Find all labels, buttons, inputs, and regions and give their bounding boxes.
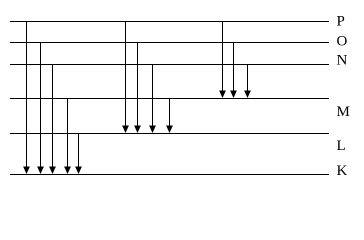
svg-text:M: M (337, 104, 350, 120)
arrow N to K (49, 65, 56, 175)
level line O (10, 42, 329, 44)
svg-text:O: O (337, 34, 348, 50)
level line K (10, 174, 329, 176)
arrow M to L (166, 99, 173, 134)
level line M (10, 98, 329, 100)
svg-text:P: P (337, 14, 345, 30)
level line L (10, 133, 329, 135)
svg-text:N: N (337, 53, 348, 69)
arrow O to K (37, 43, 44, 175)
arrow L to K (75, 134, 82, 175)
svg-text:K: K (337, 163, 348, 179)
arrow P to K (23, 22, 30, 175)
arrow N to M (244, 65, 251, 99)
arrow O to L (134, 43, 141, 134)
svg-text:L: L (337, 138, 346, 154)
arrow N to L (149, 65, 156, 134)
level line P (10, 21, 329, 23)
arrow M to K (64, 99, 71, 175)
level line N (10, 64, 329, 66)
arrow P to L (122, 22, 129, 134)
arrow O to M (230, 43, 237, 99)
arrow P to M (219, 22, 226, 99)
